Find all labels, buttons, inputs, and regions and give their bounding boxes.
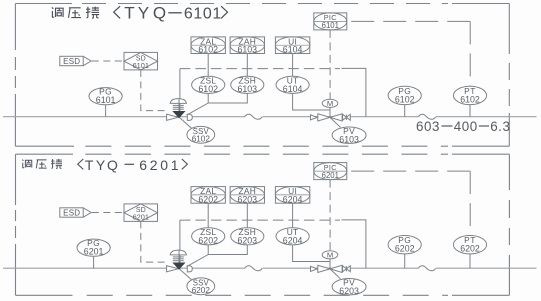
main pipe: [3, 267, 537, 269]
actuator stem: [178, 99, 180, 111]
svg-text:6101: 6101: [184, 6, 222, 23]
svg-text:ESD: ESD: [63, 209, 80, 218]
svg-text:6201: 6201: [139, 157, 181, 173]
svg-text:Q: Q: [153, 4, 166, 23]
svg-text:T: T: [124, 4, 134, 23]
svg-text:Y: Y: [96, 157, 106, 173]
svg-text:T: T: [85, 157, 94, 173]
wire PIC 6101 to PT (dashed): [347, 20, 470, 22]
wire ZAH 6103 down: [246, 54, 248, 77]
tag bubble PV 6203: [332, 278, 366, 296]
wire PG 6201 to pipe: [93, 256, 95, 268]
controller PIC 6101: [314, 13, 347, 30]
svg-text:Q: Q: [107, 157, 118, 173]
wire PG 6202 to pipe: [404, 254, 406, 268]
wire valve to PV tag: [330, 269, 340, 279]
slam-shut valve SSV 6102 body: [167, 114, 179, 120]
annunciator UI 6104: [275, 36, 309, 54]
annunciator UI 6204: [275, 186, 309, 204]
slam-shut valve SSV 6202 body: [167, 266, 179, 272]
svg-text:6202: 6202: [395, 244, 415, 254]
svg-text:M: M: [327, 99, 333, 108]
svg-text:400: 400: [454, 119, 478, 134]
SSV actuator dome and spring: [170, 99, 186, 104]
pressure gauge PG 6101: [89, 87, 122, 106]
motor actuator M: [322, 251, 338, 260]
ESD pushbutton flag: [60, 56, 91, 66]
pressure gauge PG 6202: [388, 235, 421, 254]
wire ZAL 6202 down: [207, 203, 209, 228]
motor actuator M: [322, 99, 338, 108]
wire UI 6204 down: [292, 203, 294, 228]
wire PG 6101 to pipe: [105, 105, 107, 117]
svg-text:6102: 6102: [460, 94, 480, 104]
wire ZSL 6202 down to valve: [187, 245, 209, 267]
svg-text:6202: 6202: [198, 236, 218, 246]
svg-text:M: M: [327, 251, 333, 260]
skid boundary box TYQ-6201 (dashed): [16, 154, 510, 295]
svg-text:6201: 6201: [322, 171, 339, 180]
svg-text:6103: 6103: [238, 45, 258, 55]
svg-text:6202: 6202: [192, 286, 211, 295]
annunciator ZAH 6203: [230, 186, 264, 204]
tag bubble SSV 6202: [187, 278, 215, 295]
pressure gauge PG 6201: [77, 238, 110, 257]
shutdown logic SD 6101: [124, 52, 158, 70]
svg-text:Y: Y: [138, 4, 149, 23]
skid boundary box TYQ-6101 (dashed): [15, 4, 509, 147]
wire ZSH 6203 down and across: [208, 245, 247, 255]
wire UI 6104 down: [292, 54, 294, 77]
svg-text:6102: 6102: [395, 94, 415, 104]
pipe break squiggle: [419, 114, 436, 119]
actuator stem: [178, 251, 180, 263]
svg-text:6101: 6101: [133, 61, 149, 70]
wire ZAL 6102 down: [207, 54, 209, 77]
svg-text:6102: 6102: [198, 45, 218, 55]
svg-text:6203: 6203: [238, 194, 258, 204]
hand valve after PV: [343, 114, 351, 120]
tag bubble SSV 6102: [187, 126, 215, 143]
wire valve to SSV tag: [180, 118, 192, 129]
annunciator ZAL 6102: [191, 36, 225, 54]
svg-text:6101: 6101: [96, 95, 116, 105]
title 调压撬（TYQ-6201）: [22, 157, 187, 173]
svg-text:6203: 6203: [238, 236, 258, 246]
wire ZAH 6203 down: [246, 203, 248, 228]
wire ESD to SD6101 (dashed): [92, 60, 124, 62]
hand valve after PV: [343, 266, 351, 272]
annunciator ZAL 6202: [191, 186, 225, 204]
svg-text:6104: 6104: [283, 84, 303, 94]
svg-text:603: 603: [416, 119, 440, 134]
valve stem: [329, 107, 331, 117]
signal line SSV actuator to downstream tap: [180, 68, 340, 70]
pipe break squiggle: [245, 266, 262, 271]
wire SD 6101 to SSV valve (dashed): [141, 70, 166, 111]
pipe break squiggle: [245, 114, 262, 119]
svg-text:6204: 6204: [283, 194, 303, 204]
ESD pushbutton flag: [60, 208, 91, 218]
shutdown logic SD 6201: [124, 204, 158, 222]
svg-text:6102: 6102: [198, 84, 218, 94]
switch/transmitter UT 6204: [276, 227, 309, 246]
wire PT 6202 to pipe: [469, 254, 471, 268]
valve stem: [329, 259, 331, 269]
switch/transmitter ZSL 6202: [192, 227, 225, 246]
wire ESD to SD6201 (dashed): [92, 212, 124, 214]
wire ZSH 6103 down and across: [208, 93, 247, 103]
wire PIC 6101 to motor M (dashed): [329, 30, 331, 100]
switch/transmitter ZSH 6203: [231, 227, 264, 246]
main pipe: [3, 116, 537, 118]
svg-text:6202: 6202: [460, 244, 480, 254]
wire PT 6102 to pipe: [469, 105, 471, 117]
svg-text:6103: 6103: [339, 134, 359, 144]
pipe break squiggle: [419, 266, 436, 271]
svg-text:6.3: 6.3: [490, 119, 510, 134]
svg-text:6202: 6202: [198, 194, 218, 204]
title 调压撬（TYQ-6101）: [52, 4, 228, 23]
wire valve to SSV tag: [180, 269, 192, 280]
switch/transmitter ZSL 6102: [192, 76, 225, 95]
wire UT 6204 to valve stem: [293, 245, 330, 262]
wire PIC 6201 to PT (dashed): [347, 170, 470, 172]
svg-text:6203: 6203: [339, 286, 359, 296]
wire ZSL 6102 down to valve: [187, 93, 209, 115]
control valve PV 6103 body: [311, 115, 318, 120]
pressure transmitter PT 6102: [453, 86, 486, 105]
pressure transmitter PT 6202: [453, 235, 486, 254]
wire UT 6104 to valve stem: [293, 93, 330, 110]
svg-text:6201: 6201: [133, 213, 149, 222]
wire PIC 6201 to motor M (dashed): [329, 180, 331, 252]
controller PIC 6201: [314, 163, 347, 180]
switch/transmitter UT 6104: [276, 76, 309, 95]
svg-text:ESD: ESD: [63, 57, 80, 66]
svg-text:6102: 6102: [192, 135, 211, 144]
tag bubble PV 6103: [332, 126, 366, 144]
svg-text:6204: 6204: [283, 236, 303, 246]
wire PG 6102 to pipe: [404, 105, 406, 117]
svg-text:6201: 6201: [84, 247, 104, 257]
pressure gauge PG 6102: [388, 86, 421, 105]
svg-text:6103: 6103: [238, 84, 258, 94]
wire SD 6201 to SSV valve (dashed): [141, 221, 166, 262]
control valve PV 6203 body: [311, 266, 318, 271]
SSV actuator dome and spring: [170, 250, 186, 255]
switch/transmitter ZSH 6103: [231, 76, 264, 95]
wire valve to PV tag: [330, 117, 340, 127]
svg-text:6101: 6101: [322, 21, 339, 30]
annunciator ZAH 6103: [230, 36, 264, 54]
svg-text:6104: 6104: [283, 45, 303, 55]
signal line SSV actuator to downstream tap: [180, 219, 340, 221]
